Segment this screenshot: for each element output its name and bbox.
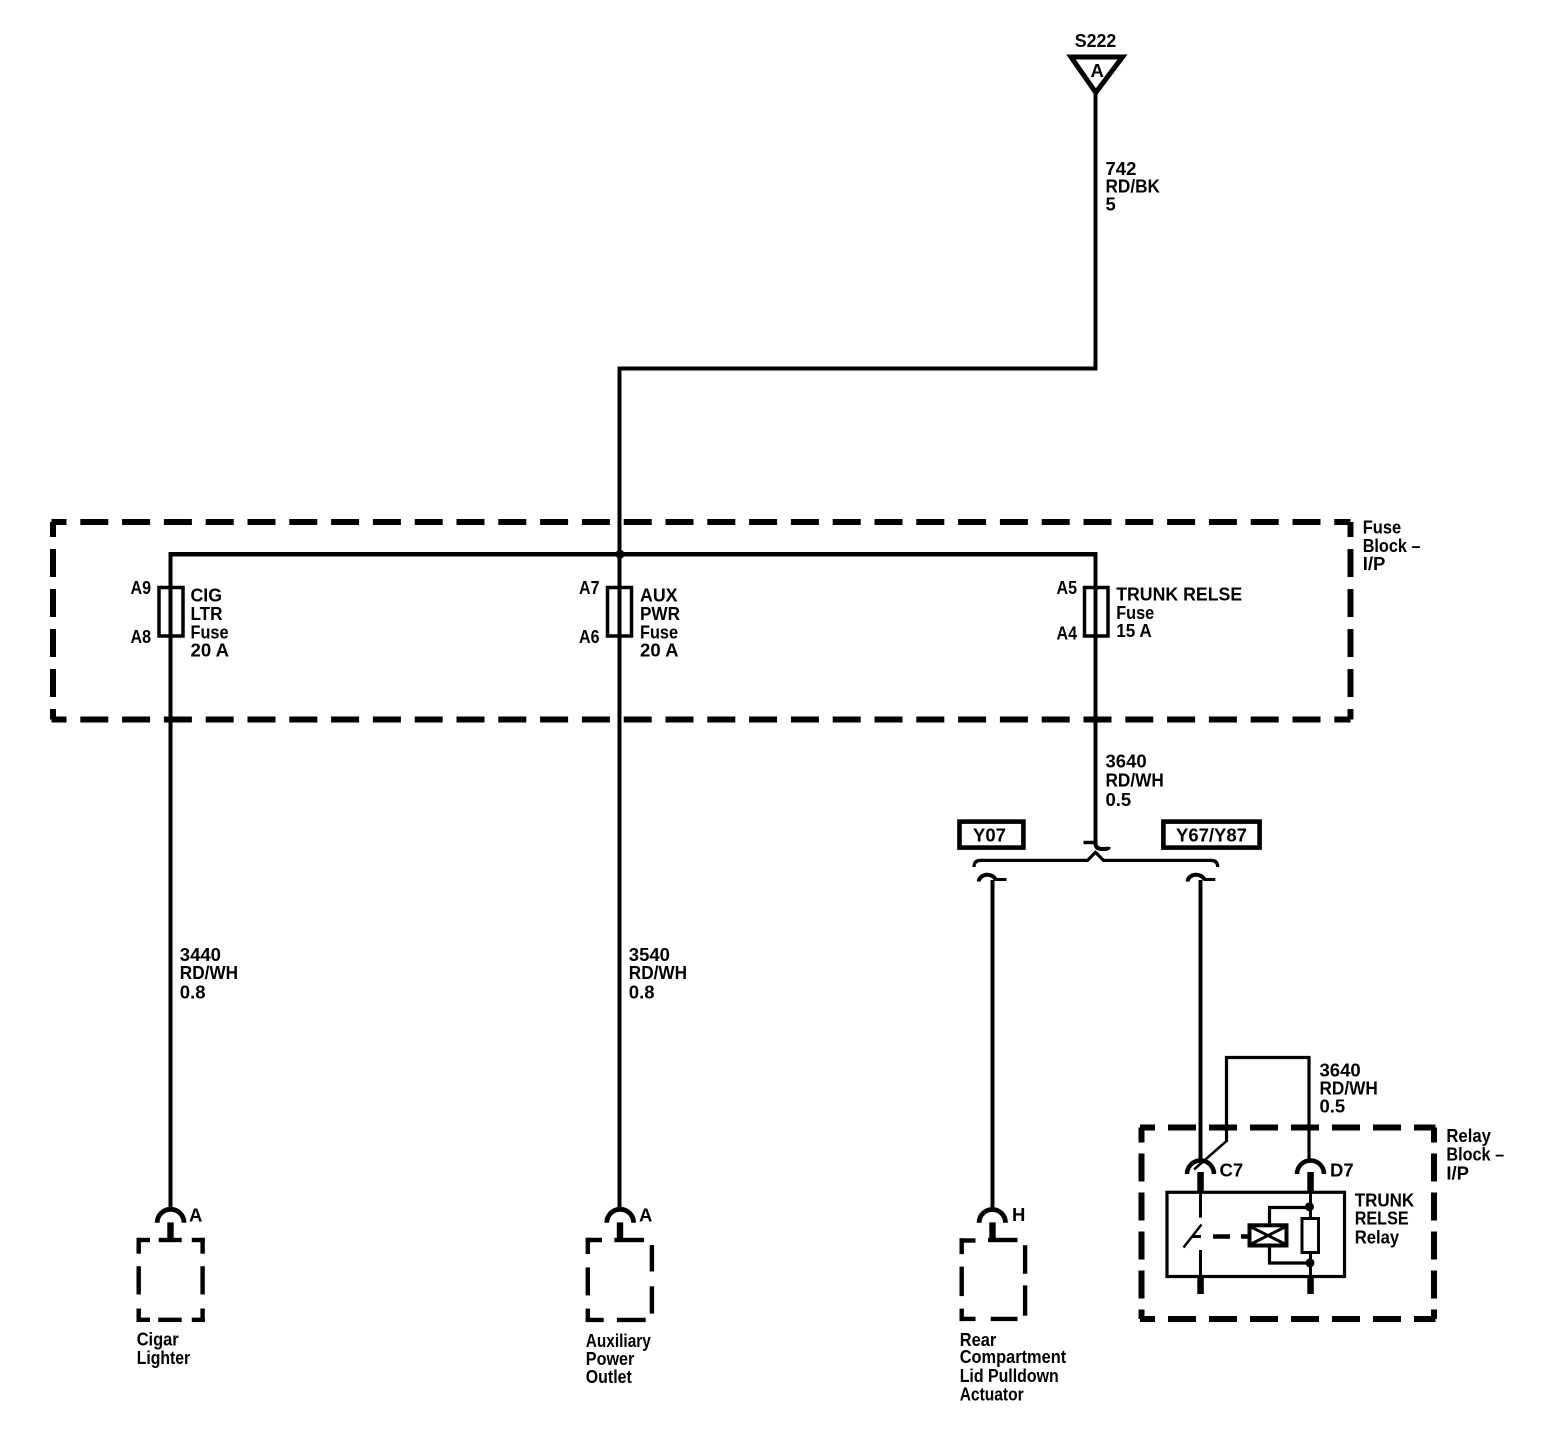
- Relay Block - I/P label: [1446, 1125, 1504, 1183]
- svg-text:3640: 3640: [1106, 751, 1147, 772]
- relay pin stub D7: [1307, 1172, 1314, 1193]
- inline connector male end of wire 3640: [1084, 838, 1109, 849]
- svg-text:A: A: [189, 1204, 202, 1225]
- svg-text:0.5: 0.5: [1320, 1096, 1346, 1117]
- svg-text:I/P: I/P: [1446, 1163, 1469, 1184]
- svg-text:A7: A7: [579, 577, 600, 598]
- svg-text:C7: C7: [1220, 1159, 1244, 1180]
- svg-text:A9: A9: [131, 577, 152, 598]
- svg-text:D7: D7: [1330, 1160, 1354, 1181]
- svg-text:15 A: 15 A: [1116, 620, 1152, 641]
- svg-text:Y07: Y07: [973, 824, 1006, 845]
- junction node coil top: [1305, 1202, 1314, 1211]
- fuse value label TRUNK RELSE Fuse 15 A: [1116, 584, 1242, 641]
- relay resistor lead top: [1309, 1192, 1312, 1218]
- relay switch lower lead: [1199, 1250, 1202, 1277]
- wire 742 RD/BK from S222 down: [1094, 93, 1098, 371]
- wire 3640 jumper loop C7 to D7: [1194, 1058, 1309, 1170]
- relay terminal arc C7: [1187, 1161, 1214, 1175]
- svg-text:A6: A6: [579, 626, 600, 647]
- relay label TRUNK RELSE Relay: [1355, 1190, 1415, 1248]
- Relay Block - I/P dashed box: [1140, 1128, 1436, 1320]
- wire through fuse A7/A6 down to aux power outlet: [618, 554, 622, 1209]
- svg-text:Block –: Block –: [1446, 1144, 1504, 1165]
- svg-text:A: A: [639, 1204, 652, 1225]
- svg-text:20 A: 20 A: [191, 639, 230, 660]
- wire jog horizontal: [618, 367, 1098, 371]
- wire through fuse A5/A4 down to connector: [1094, 552, 1098, 843]
- relay resistor body: [1302, 1219, 1319, 1253]
- component pin T-bar actuator: [988, 1238, 1018, 1242]
- svg-text:Outlet: Outlet: [586, 1366, 632, 1387]
- junction node coil bottom: [1306, 1258, 1315, 1267]
- aux power outlet dashed component box: [586, 1238, 652, 1322]
- Fuse Block - I/P label: [1363, 517, 1421, 575]
- wire through fuse A9/A8 down to cigar lighter: [169, 552, 173, 1209]
- component connector arc A aux power outlet: [607, 1209, 634, 1222]
- wire right branch to relay C7: [1199, 880, 1203, 1163]
- svg-text:S222: S222: [1075, 30, 1117, 51]
- component connector arc A cigar lighter: [157, 1209, 184, 1222]
- svg-text:RD/WH: RD/WH: [180, 962, 238, 983]
- relay coil bottom wire: [1270, 1246, 1311, 1264]
- cigar lighter label: [137, 1328, 191, 1368]
- svg-text:0.8: 0.8: [180, 981, 206, 1002]
- Fuse Block - I/P dashed box: [52, 522, 1351, 720]
- wire label 3440 RD/WH 0.8: [180, 944, 238, 1002]
- connector code box Y67/Y87: [1163, 822, 1259, 848]
- relay mechanical dashed link: [1213, 1234, 1250, 1239]
- svg-text:20 A: 20 A: [640, 639, 679, 660]
- wire label 3640 RD/WH 0.5 at relay: [1320, 1059, 1378, 1116]
- component pin stub cigar lighter: [167, 1222, 173, 1241]
- wire label 3540 RD/WH 0.8: [629, 944, 687, 1002]
- junction node at bus and feed wire: [616, 550, 625, 559]
- relay bottom stub right: [1307, 1277, 1314, 1295]
- relay switch fixed contact: [1199, 1192, 1202, 1217]
- relay switch pivot tick: [1192, 1235, 1201, 1238]
- component pin stub aux power outlet: [617, 1222, 623, 1241]
- relay coil box with X: [1250, 1225, 1287, 1245]
- svg-text:0.5: 0.5: [1106, 789, 1132, 810]
- relay switch blade: [1184, 1225, 1202, 1248]
- wire left branch to actuator: [991, 880, 995, 1209]
- component pin T-bar cigar lighter: [159, 1238, 182, 1242]
- svg-text:5: 5: [1106, 193, 1116, 214]
- fuse TRUNK RELSE body: [1085, 588, 1109, 637]
- wire label 3640 RD/WH 0.5: [1106, 751, 1164, 810]
- inline connector female end left branch: [979, 875, 1007, 882]
- relay terminal arc D7: [1297, 1161, 1324, 1175]
- svg-text:0.8: 0.8: [629, 981, 655, 1002]
- component connector arc H actuator: [979, 1209, 1005, 1222]
- component pin stub actuator: [989, 1222, 995, 1241]
- svg-text:Actuator: Actuator: [960, 1384, 1024, 1405]
- aux power outlet label: [586, 1330, 652, 1387]
- svg-text:A4: A4: [1057, 622, 1078, 643]
- bus wire inside fuse block: [171, 552, 1096, 557]
- relay TRUNK RELSE box: [1167, 1192, 1345, 1276]
- svg-text:Lighter: Lighter: [137, 1347, 191, 1368]
- relay pin stub C7: [1197, 1172, 1204, 1193]
- svg-text:RD/WH: RD/WH: [629, 962, 687, 983]
- connector code box Y07: [960, 822, 1024, 848]
- svg-text:A: A: [1091, 60, 1104, 81]
- component pin T-bar aux power outlet: [614, 1238, 644, 1242]
- relay coil top wire: [1270, 1208, 1310, 1226]
- relay bottom stub left: [1197, 1277, 1204, 1295]
- svg-text:A8: A8: [131, 626, 152, 647]
- fuse AUX PWR body: [608, 588, 632, 637]
- fuse value label AUX PWR Fuse 20 A: [640, 585, 680, 661]
- fuse CIG LTR body: [159, 588, 183, 637]
- wire jog vertical down to fuse block bus: [618, 369, 622, 557]
- svg-text:Relay: Relay: [1355, 1227, 1400, 1248]
- cigar lighter dashed component box: [137, 1238, 205, 1322]
- wire label 742 RD/BK 5: [1106, 158, 1161, 214]
- inline connector female end right branch: [1188, 875, 1216, 882]
- harness split brace: [974, 852, 1218, 867]
- fuse value label CIG LTR Fuse 20 A: [191, 585, 230, 661]
- svg-text:A5: A5: [1057, 577, 1078, 598]
- splice S222 triangle: [1071, 57, 1123, 93]
- svg-text:RD/WH: RD/WH: [1106, 770, 1164, 791]
- relay resistor lead bottom: [1309, 1253, 1312, 1277]
- actuator label: [960, 1329, 1066, 1404]
- svg-text:Y67/Y87: Y67/Y87: [1176, 824, 1247, 845]
- svg-text:H: H: [1012, 1204, 1025, 1225]
- actuator dashed component box: [960, 1238, 1026, 1321]
- svg-text:I/P: I/P: [1363, 553, 1386, 574]
